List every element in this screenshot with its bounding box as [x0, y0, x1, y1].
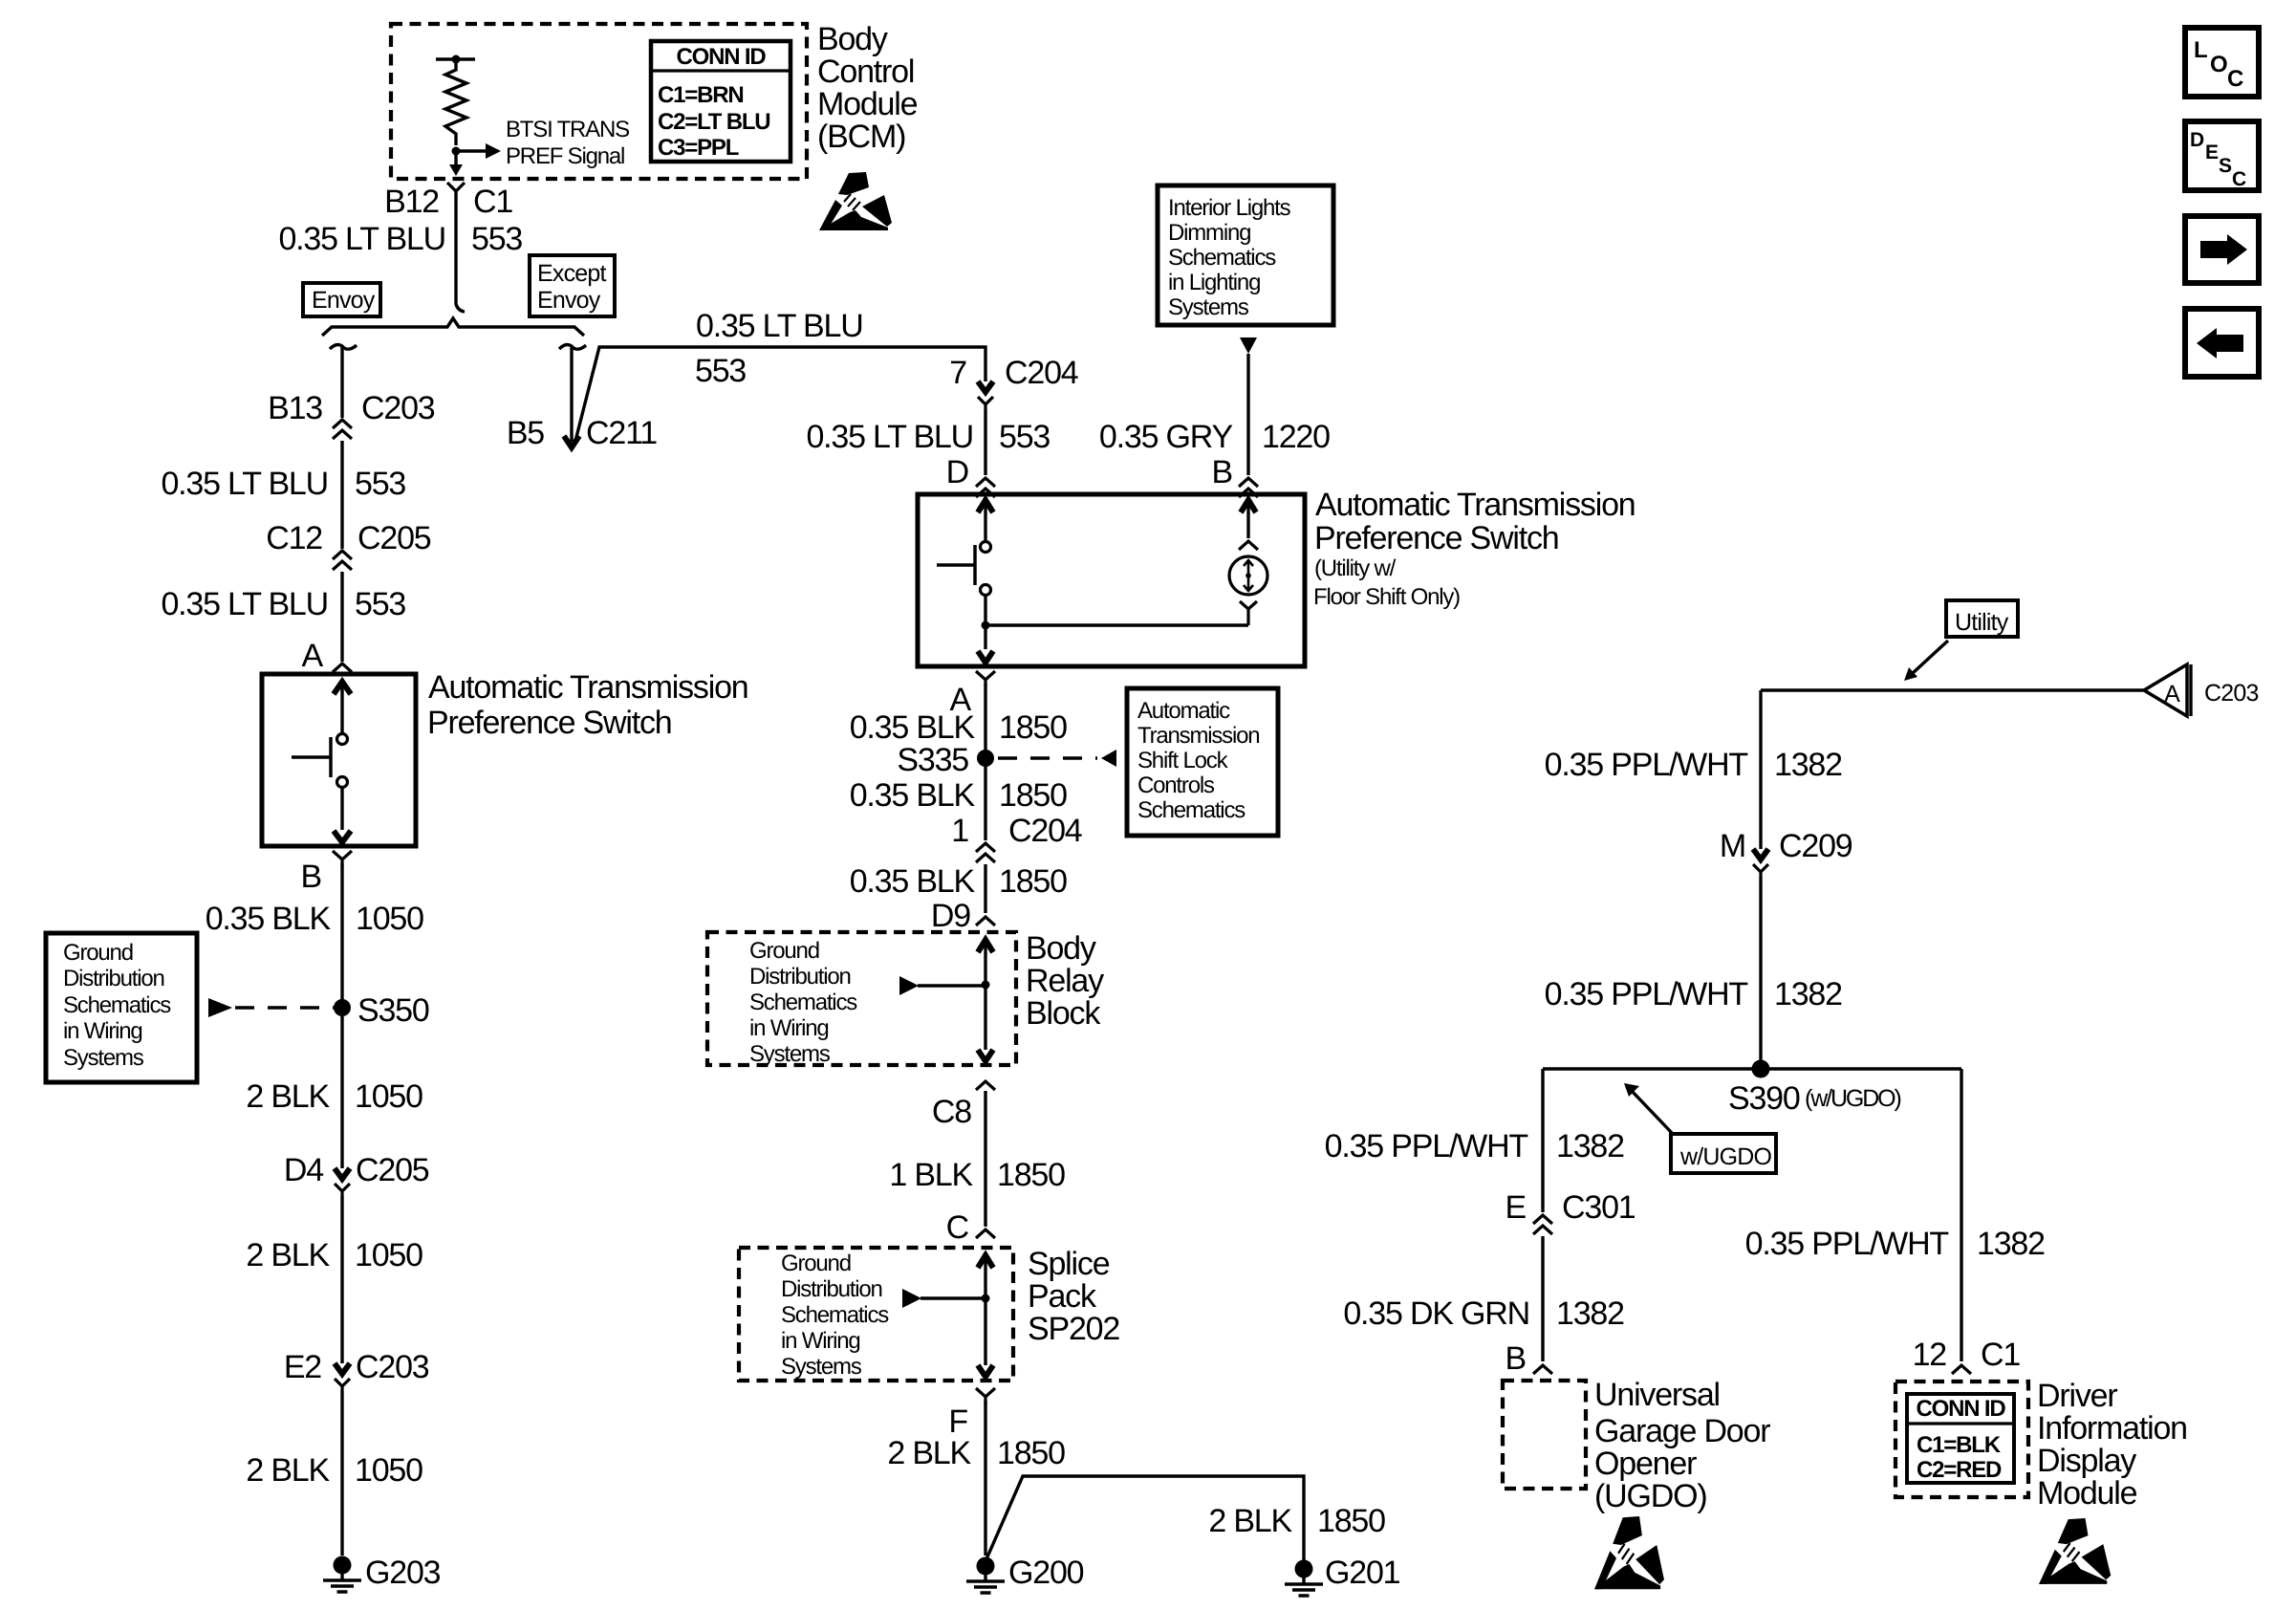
svg-text:S390: S390 [1728, 1080, 1800, 1117]
svg-text:G203: G203 [365, 1555, 441, 1591]
svg-text:553: 553 [999, 419, 1050, 455]
svg-text:Schematics: Schematics [63, 992, 171, 1018]
svg-text:C203: C203 [2204, 680, 2259, 707]
svg-text:0.35 PPL/WHT: 0.35 PPL/WHT [1545, 976, 1748, 1012]
svg-text:Module: Module [817, 86, 918, 122]
svg-text:1382: 1382 [1556, 1128, 1624, 1164]
svg-text:Body: Body [1026, 930, 1096, 967]
svg-text:Schematics: Schematics [1137, 797, 1245, 823]
svg-text:w/UGDO: w/UGDO [1679, 1143, 1772, 1170]
svg-text:Information: Information [2037, 1410, 2187, 1447]
svg-text:1050: 1050 [355, 1078, 422, 1115]
svg-text:C301: C301 [1562, 1189, 1635, 1226]
svg-text:(w/UGDO): (w/UGDO) [1805, 1085, 1901, 1112]
svg-text:D9: D9 [931, 898, 970, 934]
svg-text:0.35 BLK: 0.35 BLK [206, 901, 332, 937]
svg-text:C204: C204 [1005, 355, 1078, 391]
svg-text:C205: C205 [356, 1152, 429, 1188]
svg-text:C12: C12 [266, 520, 322, 556]
svg-text:in Wiring: in Wiring [781, 1328, 860, 1354]
svg-text:Distribution: Distribution [749, 964, 851, 990]
svg-text:C203: C203 [356, 1349, 429, 1385]
svg-text:0.35 LT BLU: 0.35 LT BLU [161, 586, 328, 622]
svg-text:Envoy: Envoy [312, 287, 376, 314]
svg-text:S350: S350 [357, 992, 429, 1029]
svg-text:1: 1 [951, 813, 968, 849]
svg-text:0.35 PPL/WHT: 0.35 PPL/WHT [1325, 1128, 1528, 1164]
svg-text:0.35 PPL/WHT: 0.35 PPL/WHT [1745, 1226, 1949, 1262]
svg-text:553: 553 [355, 466, 405, 502]
svg-text:B: B [301, 859, 321, 895]
svg-text:C: C [2227, 66, 2243, 92]
svg-text:C3=PPL: C3=PPL [658, 135, 739, 161]
svg-text:0.35 LT BLU: 0.35 LT BLU [278, 221, 445, 257]
svg-text:PREF Signal: PREF Signal [506, 143, 624, 169]
svg-text:1050: 1050 [355, 1237, 422, 1273]
svg-text:1050: 1050 [356, 901, 423, 937]
svg-text:Control: Control [817, 54, 914, 90]
svg-text:C1=BRN: C1=BRN [658, 82, 744, 108]
svg-text:Automatic Transmission: Automatic Transmission [428, 669, 748, 706]
svg-text:Interior Lights: Interior Lights [1168, 195, 1291, 221]
svg-text:1382: 1382 [1774, 747, 1842, 783]
svg-text:Except: Except [537, 260, 606, 287]
svg-text:0.35 BLK: 0.35 BLK [850, 863, 976, 900]
svg-text:12: 12 [1913, 1337, 1947, 1373]
svg-text:B: B [1212, 454, 1232, 490]
svg-text:1220: 1220 [1262, 419, 1330, 455]
svg-text:A: A [2164, 681, 2180, 707]
svg-text:2 BLK: 2 BLK [246, 1452, 330, 1489]
svg-text:Automatic: Automatic [1137, 698, 1230, 724]
svg-text:1850: 1850 [997, 1435, 1065, 1471]
svg-text:Systems: Systems [63, 1045, 144, 1071]
svg-text:C2=LT BLU: C2=LT BLU [658, 109, 769, 135]
svg-text:Shift Lock: Shift Lock [1137, 748, 1229, 773]
svg-text:(Utility w/: (Utility w/ [1314, 555, 1397, 581]
svg-text:S: S [2219, 155, 2232, 177]
svg-text:C8: C8 [932, 1094, 971, 1130]
svg-text:Systems: Systems [749, 1041, 831, 1067]
svg-text:B12: B12 [384, 184, 439, 220]
svg-text:E: E [2205, 141, 2219, 163]
svg-text:0.35 PPL/WHT: 0.35 PPL/WHT [1545, 747, 1748, 783]
svg-text:M: M [1720, 828, 1745, 864]
svg-text:C2=RED: C2=RED [1917, 1457, 2002, 1483]
svg-text:Schematics: Schematics [1168, 245, 1276, 271]
svg-text:0.35 BLK: 0.35 BLK [850, 709, 976, 746]
svg-text:in Wiring: in Wiring [749, 1015, 829, 1041]
svg-text:1382: 1382 [1977, 1226, 2045, 1262]
svg-text:BTSI TRANS: BTSI TRANS [506, 117, 629, 142]
svg-text:Ground: Ground [781, 1251, 851, 1276]
svg-text:D: D [946, 454, 968, 490]
svg-text:553: 553 [355, 586, 405, 622]
svg-text:Envoy: Envoy [537, 287, 601, 314]
svg-text:0.35 BLK: 0.35 BLK [850, 777, 976, 814]
svg-text:553: 553 [471, 221, 522, 257]
svg-text:1850: 1850 [1317, 1503, 1385, 1539]
svg-text:0.35 DK GRN: 0.35 DK GRN [1343, 1295, 1529, 1332]
svg-text:CONN ID: CONN ID [677, 44, 767, 70]
svg-text:Ground: Ground [749, 938, 819, 964]
svg-text:(UGDO): (UGDO) [1594, 1478, 1706, 1514]
svg-text:Splice: Splice [1028, 1246, 1110, 1282]
svg-text:1850: 1850 [997, 1157, 1065, 1193]
svg-text:Body: Body [817, 21, 888, 57]
svg-text:G200: G200 [1008, 1555, 1084, 1591]
svg-text:C: C [2232, 168, 2246, 190]
svg-text:B5: B5 [507, 415, 544, 451]
svg-text:Schematics: Schematics [749, 990, 857, 1015]
svg-text:in Wiring: in Wiring [63, 1018, 142, 1044]
svg-text:0.35 LT BLU: 0.35 LT BLU [696, 308, 863, 344]
svg-text:C209: C209 [1779, 828, 1852, 864]
svg-text:CONN ID: CONN ID [1917, 1396, 2006, 1422]
svg-text:2 BLK: 2 BLK [246, 1078, 330, 1115]
svg-text:Utility: Utility [1955, 609, 2009, 636]
svg-text:Floor Shift Only): Floor Shift Only) [1313, 584, 1460, 610]
svg-text:Display: Display [2037, 1443, 2136, 1479]
svg-text:Distribution: Distribution [781, 1276, 882, 1302]
svg-text:Relay: Relay [1026, 963, 1104, 999]
svg-text:Systems: Systems [1168, 294, 1249, 320]
svg-text:B: B [1505, 1340, 1526, 1377]
svg-text:D: D [2190, 129, 2204, 151]
svg-text:O: O [2210, 52, 2227, 77]
svg-text:1050: 1050 [355, 1452, 422, 1489]
svg-text:C205: C205 [357, 520, 431, 556]
svg-text:1850: 1850 [999, 863, 1067, 900]
svg-text:1382: 1382 [1556, 1295, 1624, 1332]
svg-text:Driver: Driver [2037, 1378, 2117, 1414]
svg-text:7: 7 [949, 355, 966, 391]
svg-text:E2: E2 [284, 1349, 321, 1385]
svg-text:L: L [2194, 37, 2207, 63]
svg-text:C1=BLK: C1=BLK [1917, 1432, 2002, 1458]
svg-text:Universal: Universal [1594, 1377, 1720, 1413]
svg-text:0.35 LT BLU: 0.35 LT BLU [806, 419, 973, 455]
svg-text:D4: D4 [284, 1152, 323, 1188]
svg-text:1850: 1850 [999, 777, 1067, 814]
svg-text:Distribution: Distribution [63, 966, 164, 991]
svg-text:S335: S335 [897, 742, 968, 778]
svg-text:1 BLK: 1 BLK [889, 1157, 973, 1193]
svg-text:2 BLK: 2 BLK [1208, 1503, 1292, 1539]
svg-text:1850: 1850 [999, 709, 1067, 746]
svg-text:C1: C1 [1981, 1337, 2020, 1373]
svg-text:Schematics: Schematics [781, 1302, 889, 1328]
svg-text:in Lighting: in Lighting [1168, 270, 1260, 295]
svg-text:1382: 1382 [1774, 976, 1842, 1012]
svg-text:2 BLK: 2 BLK [246, 1237, 330, 1273]
svg-text:0.35 LT BLU: 0.35 LT BLU [161, 466, 328, 502]
svg-text:Block: Block [1026, 995, 1101, 1032]
svg-text:C203: C203 [361, 390, 435, 426]
svg-text:Systems: Systems [781, 1354, 862, 1380]
svg-text:Module: Module [2037, 1475, 2137, 1512]
svg-text:Ground: Ground [63, 940, 133, 966]
svg-text:(BCM): (BCM) [817, 119, 905, 155]
svg-text:A: A [302, 638, 324, 674]
svg-text:Opener: Opener [1594, 1446, 1697, 1482]
svg-text:Controls: Controls [1137, 772, 1215, 798]
svg-text:Transmission: Transmission [1137, 723, 1259, 749]
svg-text:0.35 GRY: 0.35 GRY [1099, 419, 1233, 455]
svg-text:SP202: SP202 [1028, 1311, 1119, 1347]
svg-text:C204: C204 [1008, 813, 1082, 849]
svg-text:B13: B13 [268, 390, 322, 426]
svg-text:C1: C1 [473, 184, 512, 220]
svg-text:E: E [1505, 1189, 1527, 1226]
svg-text:Preference Switch: Preference Switch [1314, 520, 1559, 556]
svg-text:Pack: Pack [1028, 1278, 1097, 1315]
svg-text:Preference Switch: Preference Switch [427, 705, 672, 741]
svg-text:C211: C211 [586, 415, 657, 451]
svg-text:553: 553 [695, 353, 746, 389]
svg-text:Dimming: Dimming [1168, 220, 1250, 246]
svg-text:Garage Door: Garage Door [1594, 1413, 1770, 1449]
svg-text:Automatic Transmission: Automatic Transmission [1315, 487, 1635, 523]
svg-text:C: C [946, 1209, 969, 1246]
svg-text:G201: G201 [1325, 1555, 1400, 1591]
svg-text:2 BLK: 2 BLK [887, 1435, 971, 1471]
